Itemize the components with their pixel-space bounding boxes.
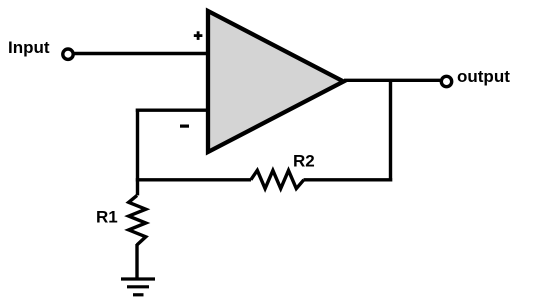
- output terminal: [441, 76, 451, 86]
- wire R1 to ground: [135, 244, 138, 279]
- wire op-amp output: [344, 79, 440, 82]
- pin label +: [194, 31, 203, 40]
- svg-text:R1: R1: [96, 208, 118, 227]
- svg-text:R2: R2: [293, 152, 315, 171]
- resistor R2: [251, 170, 304, 188]
- pin label -: [180, 125, 189, 128]
- op-amp U1: [208, 11, 344, 152]
- wire output vertical: [389, 80, 392, 181]
- label output: [457, 67, 510, 86]
- input terminal: [63, 49, 73, 59]
- wire inverting input: [136, 108, 208, 111]
- node feedback junction: [136, 178, 251, 181]
- ground: [121, 279, 155, 295]
- label R1: [96, 208, 118, 227]
- wire input to non-inverting input: [75, 52, 209, 55]
- wire R2 to output node: [304, 178, 393, 181]
- svg-text:Input: Input: [8, 38, 50, 57]
- label Input: [8, 38, 50, 57]
- wire feedback left vertical: [136, 109, 139, 196]
- label R2: [293, 152, 315, 171]
- resistor R1: [129, 195, 146, 245]
- svg-text:output: output: [457, 67, 510, 86]
